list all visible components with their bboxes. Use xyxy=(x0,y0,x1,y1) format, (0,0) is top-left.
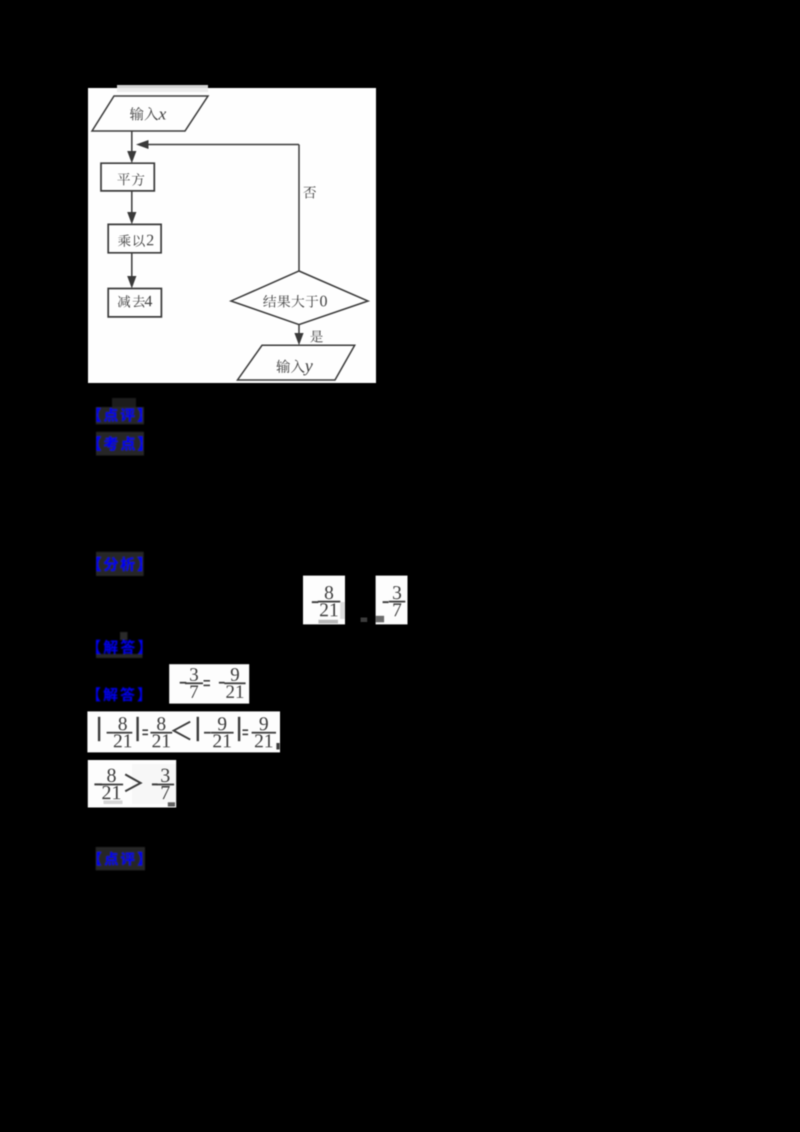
text input x xyxy=(130,107,144,120)
wire feedback horizontal (no branch) xyxy=(148,144,299,146)
blue label 6 dianping xyxy=(97,852,101,865)
math image fraction -3/7 xyxy=(376,576,408,625)
wire input-x down to square xyxy=(131,131,133,152)
parallelogram input x xyxy=(92,96,208,131)
blue label 4 jieda xyxy=(96,640,101,654)
math image fraction -8/21 xyxy=(303,576,345,625)
process box subtract 4 xyxy=(108,289,161,317)
arrowhead into output parallelogram xyxy=(294,333,303,345)
process box multiply by 2 xyxy=(108,224,161,252)
wire diamond down to output (yes branch) xyxy=(298,325,300,333)
text multiply by 2 xyxy=(118,235,131,247)
gray highlight box label 6 xyxy=(96,847,145,870)
math image equation -3/7 = -9/21 xyxy=(169,664,249,703)
blue label 2 kaodian xyxy=(97,436,102,450)
process box square xyxy=(101,163,154,191)
text output y xyxy=(276,360,290,373)
math image conclusion -8/21 greater than -3/7 xyxy=(88,760,176,808)
arrowhead into square box xyxy=(127,151,136,163)
text yes branch label xyxy=(310,330,323,342)
text no branch label xyxy=(303,186,316,198)
blue label 3 fenxi xyxy=(97,557,102,571)
decision diamond result greater than 0 xyxy=(231,271,368,325)
arrowhead into multiply box xyxy=(127,212,136,224)
blue label 5 jieda xyxy=(96,687,101,701)
gray highlight box label 1 xyxy=(96,407,144,424)
flowchart image white background xyxy=(88,88,376,383)
text square xyxy=(117,173,130,185)
arrowhead feedback pointing left xyxy=(136,140,149,149)
wire multiply to subtract xyxy=(131,253,133,276)
gray highlight box label 2 xyxy=(96,432,144,456)
parallelogram output y xyxy=(238,345,355,380)
text result greater than 0 xyxy=(263,295,276,308)
scan artifact gray strip xyxy=(117,85,208,90)
gray highlight box label 3 xyxy=(96,552,144,576)
text subtract 4 xyxy=(118,295,130,307)
arrowhead into subtract box xyxy=(127,276,136,289)
math image absolute value comparison xyxy=(87,711,280,752)
wire feedback vertical from diamond top xyxy=(298,145,300,272)
wire square to multiply xyxy=(131,191,133,212)
blue label 1 dianping xyxy=(97,408,102,422)
dark comma between fraction images xyxy=(361,618,368,623)
gray sliver above label 4 xyxy=(120,632,128,640)
